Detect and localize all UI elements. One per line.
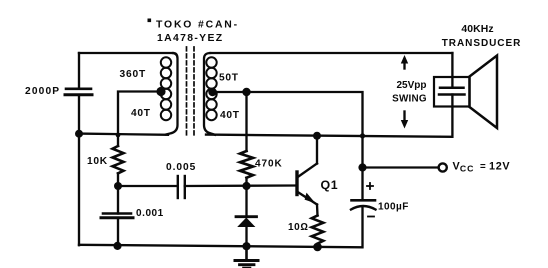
wire rail down to transducer bbox=[451, 53, 453, 88]
svg-text:VCC=12V: VCC=12V bbox=[453, 160, 511, 173]
wire bottom rail bbox=[79, 245, 362, 248]
wire C2 to bottom rail bbox=[117, 218, 119, 247]
svg-text:0.005: 0.005 bbox=[166, 162, 196, 173]
transformer T1 primary winding bbox=[161, 53, 178, 135]
terminal VCC bbox=[439, 163, 447, 171]
wire VCC feed bbox=[363, 166, 439, 168]
transducer element plates bbox=[439, 88, 465, 95]
wire top-left rail bbox=[79, 52, 173, 54]
wire top-right rail bbox=[210, 52, 452, 54]
wire R2 to base junction bbox=[245, 178, 247, 186]
Q1 collector diagonal bbox=[299, 164, 318, 177]
svg-text:TOKO #CAN-: TOKO #CAN- bbox=[156, 20, 239, 31]
node junction bottom rail / emitter bbox=[313, 243, 322, 252]
node primary tap dot bbox=[156, 87, 165, 96]
Q1 collector wire bbox=[316, 136, 318, 164]
node crossing bulge at R1 column / left tap rail bbox=[116, 133, 121, 138]
node junction bottom rail / D1 bbox=[242, 242, 250, 250]
label transformer part no bbox=[148, 19, 239, 44]
wire transducer bottom lead bbox=[451, 95, 453, 137]
wire VCC column to C4 bbox=[361, 168, 363, 201]
svg-text:40KHz: 40KHz bbox=[461, 24, 493, 35]
diode D1 bbox=[236, 217, 257, 227]
wire R3 to bottom rail bbox=[316, 244, 318, 247]
svg-text:40T: 40T bbox=[131, 108, 151, 119]
wire R1 bottom to junction bbox=[117, 173, 119, 186]
svg-text:50T: 50T bbox=[219, 72, 239, 83]
svg-text:1A478-YEZ: 1A478-YEZ bbox=[157, 33, 223, 44]
ground bbox=[235, 246, 258, 268]
wire D1 to bottom rail bbox=[245, 227, 247, 247]
node secondary tap dot bbox=[208, 88, 216, 96]
svg-text:470K: 470K bbox=[255, 158, 283, 169]
capacitor C4 100uF bbox=[351, 200, 376, 209]
wire tap junction down to R2 bbox=[245, 92, 247, 151]
transformer T1 secondary winding bbox=[204, 53, 217, 135]
node junction base/R2/D1 bbox=[242, 182, 250, 190]
capacitor C1 2000P bbox=[65, 89, 92, 95]
node crossing bulge at VCC column / tap rail bbox=[360, 133, 365, 138]
Q1 emitter arrowhead bbox=[305, 193, 316, 204]
label C4 minus bbox=[368, 216, 374, 218]
svg-text:360T: 360T bbox=[120, 69, 147, 80]
annotation swing arrow down bbox=[401, 112, 408, 129]
wire C4 to bottom rail corner bbox=[361, 207, 363, 247]
svg-text:TRANSDUCER: TRANSDUCER bbox=[442, 38, 522, 49]
Q1 emitter diagonal bbox=[299, 193, 318, 205]
wire primary tap to R1 bbox=[118, 92, 161, 147]
wire right tap rail bbox=[206, 135, 452, 137]
Q1 base bar bbox=[295, 172, 298, 195]
wire left tap rail bbox=[79, 134, 168, 135]
Q1 emitter wire bbox=[316, 205, 319, 216]
wire secondary tap line to VCC column bbox=[213, 92, 363, 168]
label C4 plus bbox=[367, 183, 373, 189]
wire base junction to D1 bbox=[245, 186, 247, 217]
resistor R3 10ohm bbox=[312, 216, 324, 244]
wire junction to C3 bbox=[118, 185, 177, 187]
svg-text:100µF: 100µF bbox=[378, 202, 409, 213]
node junction VCC takeoff bbox=[358, 163, 366, 171]
capacitor C2 0.001 bbox=[101, 214, 133, 218]
node junction collector / right tap rail bbox=[313, 132, 321, 140]
svg-text:10Ω: 10Ω bbox=[288, 222, 309, 233]
transformer T1 core bbox=[187, 47, 195, 136]
svg-text:10K: 10K bbox=[87, 156, 108, 167]
transistor Q1 bbox=[297, 136, 318, 216]
wire junction to C2 bbox=[117, 186, 119, 214]
capacitor C3 0.005 bbox=[178, 176, 185, 198]
transducer horn bbox=[470, 56, 498, 129]
transducer body bbox=[434, 77, 470, 107]
resistor R1 10K bbox=[113, 146, 124, 173]
wire left rail upper bbox=[78, 53, 80, 88]
node junction left-rail / tap-rail bbox=[75, 130, 83, 138]
svg-text:25Vpp: 25Vpp bbox=[396, 80, 426, 91]
node junction R1/C2/C3 bbox=[114, 182, 122, 190]
svg-text:2000P: 2000P bbox=[25, 86, 60, 97]
wire C3 to Q1 base bbox=[185, 184, 296, 187]
node junction tap/470K bbox=[242, 88, 250, 96]
resistor R2 470K bbox=[240, 151, 253, 178]
node junction bottom rail / C2 bbox=[113, 242, 121, 250]
svg-text:Q1: Q1 bbox=[321, 178, 339, 192]
annotation swing arrow up bbox=[401, 55, 408, 69]
svg-text:40T: 40T bbox=[220, 110, 240, 121]
svg-text:0.001: 0.001 bbox=[136, 208, 164, 219]
wire left rail lower bbox=[78, 95, 80, 245]
svg-text:SWING: SWING bbox=[392, 93, 427, 104]
